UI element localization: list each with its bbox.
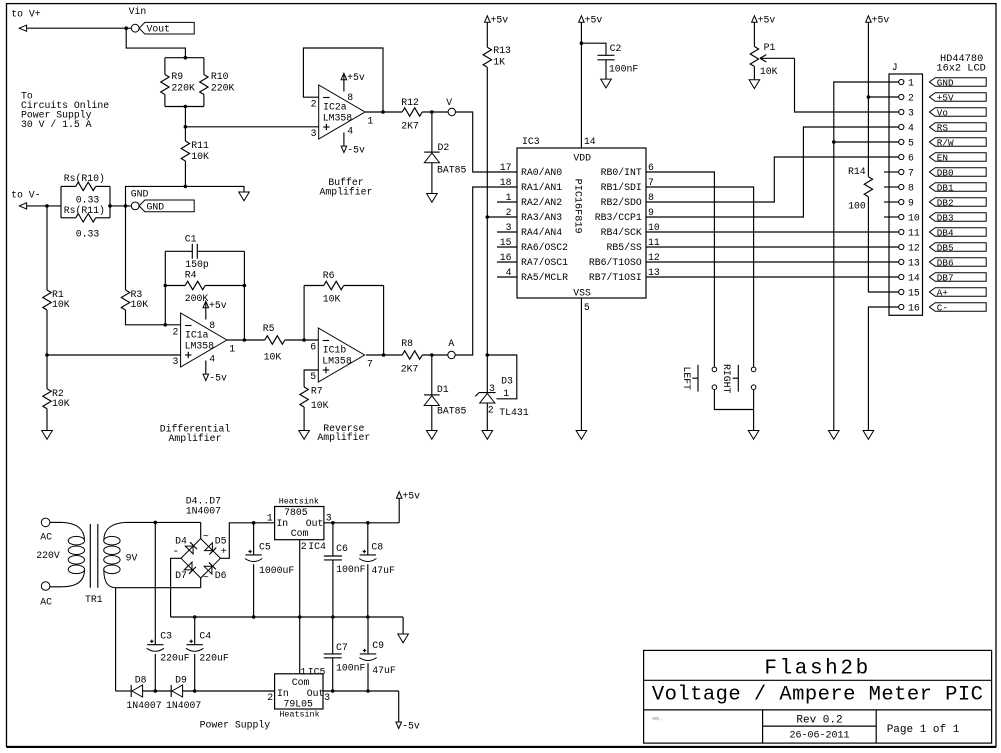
- svg-text:2: 2: [908, 92, 914, 103]
- svg-text:Rs(R11): Rs(R11): [64, 205, 105, 216]
- svg-text:5: 5: [908, 137, 914, 148]
- wire R6 left vertical: [303, 286, 305, 341]
- svg-text:100nF: 100nF: [609, 64, 639, 75]
- wire mid rail: [171, 615, 404, 619]
- wire 7805 out rail: [324, 521, 399, 525]
- wire D9 to 79L05: [183, 690, 275, 692]
- connector AC top: [40, 518, 52, 542]
- svg-text:15: 15: [908, 287, 920, 298]
- svg-text:Com: Com: [292, 677, 310, 688]
- ground below C- line: [863, 431, 874, 440]
- svg-text:~: ~: [203, 532, 209, 543]
- svg-text:Out: Out: [306, 518, 324, 529]
- svg-text:Amplifier: Amplifier: [169, 433, 222, 444]
- resistor R1: [43, 289, 70, 310]
- svg-text:R12: R12: [401, 97, 419, 108]
- connector V terminal: [446, 97, 455, 116]
- svg-text:3: 3: [326, 513, 332, 524]
- net tag Vout: [139, 22, 194, 34]
- svg-text:79L05: 79L05: [284, 698, 314, 709]
- svg-text:LEFT: LEFT: [681, 367, 692, 391]
- wire VSS to ground: [580, 298, 582, 431]
- resistor R11: [181, 140, 209, 162]
- connector J pin 9: [899, 197, 914, 208]
- wire IC2a feedback loop: [303, 48, 384, 114]
- wire DB2 stub: [884, 201, 899, 203]
- svg-text:10K: 10K: [191, 151, 209, 162]
- wire R8 to A node: [422, 353, 448, 357]
- svg-text:AC: AC: [40, 597, 52, 608]
- net tag GND: [139, 200, 194, 212]
- svg-text:1000uF: 1000uF: [259, 565, 294, 576]
- wire Rs box right: [108, 186, 131, 217]
- capacitor C9 47uF: [359, 617, 396, 691]
- connector J pin 10: [899, 212, 920, 223]
- wire RA2 stub: [497, 201, 517, 203]
- svg-text:100nF: 100nF: [336, 662, 366, 673]
- power +5v out: [396, 490, 420, 522]
- transformer TR1 primary: [50, 522, 85, 586]
- op-amp IC1a: [173, 300, 236, 384]
- svg-text:R4: R4: [185, 269, 197, 280]
- wire TL431 ref loop: [487, 355, 517, 399]
- svg-text:GND: GND: [147, 201, 165, 212]
- title block frame: [644, 650, 992, 743]
- wire P1 wiper to Vo: [795, 58, 899, 112]
- svg-text:200K: 200K: [185, 293, 209, 304]
- svg-text:Power Supply: Power Supply: [200, 720, 271, 731]
- svg-text:17: 17: [500, 162, 512, 173]
- svg-text:4: 4: [347, 125, 353, 136]
- svg-text:D1: D1: [437, 384, 449, 395]
- power +5v for LCD: [866, 14, 890, 25]
- connector A terminal: [448, 338, 455, 359]
- diode D3 TL431: [475, 355, 529, 418]
- wire secondary bottom: [116, 587, 201, 589]
- connector J pin 13: [899, 257, 920, 268]
- svg-text:D3: D3: [501, 375, 513, 386]
- diode D9 1N4007: [166, 674, 201, 711]
- node Vin junction: [124, 6, 146, 30]
- svg-text:+5v: +5v: [758, 14, 776, 25]
- net tag DB5: [929, 242, 986, 253]
- wire RB0 to LEFT button: [646, 172, 714, 367]
- svg-text:LM358: LM358: [322, 355, 352, 366]
- IC U1 PIC16F819: [500, 136, 660, 313]
- svg-text:TR1: TR1: [85, 594, 103, 605]
- svg-text:RA2/AN2: RA2/AN2: [521, 197, 562, 208]
- wire RB6 to DB6: [646, 261, 899, 263]
- svg-text:5: 5: [584, 302, 590, 313]
- wire R/W pin5 line: [834, 141, 899, 143]
- svg-text:IC3: IC3: [522, 136, 540, 147]
- svg-text:to V+: to V+: [11, 8, 41, 19]
- wire TL431 to ground: [486, 403, 488, 431]
- svg-text:1: 1: [300, 666, 306, 677]
- svg-text:D5: D5: [215, 535, 227, 546]
- wire GND pin1 line: [832, 82, 899, 431]
- resistor R12: [401, 97, 422, 132]
- svg-text:+5v: +5v: [209, 300, 227, 311]
- wire IC2a out to R12: [365, 111, 402, 113]
- svg-text:+: +: [221, 547, 227, 558]
- svg-text:V: V: [446, 97, 452, 108]
- svg-text:1: 1: [229, 344, 235, 355]
- net tag GND: [929, 77, 986, 88]
- svg-text:P1: P1: [764, 42, 776, 53]
- svg-text:C2: C2: [610, 43, 622, 54]
- wire 79L05 com: [299, 617, 301, 674]
- svg-text:+5v: +5v: [872, 14, 890, 25]
- svg-text:DB2: DB2: [937, 197, 954, 208]
- svg-text:7805: 7805: [284, 507, 308, 518]
- svg-text:-: -: [173, 546, 180, 558]
- svg-text:220uF: 220uF: [199, 652, 229, 663]
- connector J pin 7: [899, 167, 914, 178]
- wire C- pin16 to ground: [868, 307, 898, 431]
- svg-text:1: 1: [908, 77, 914, 88]
- svg-text:1N4007: 1N4007: [186, 506, 221, 517]
- svg-text:3: 3: [489, 383, 495, 394]
- wire RA5 stub: [497, 276, 517, 278]
- node to V+ label: [11, 8, 41, 19]
- svg-text:LM358: LM358: [185, 340, 215, 351]
- wire V- to R1: [46, 206, 48, 290]
- wire transformer drop: [115, 588, 117, 691]
- svg-text:J: J: [892, 62, 898, 73]
- svg-text:10K: 10K: [311, 400, 329, 411]
- svg-text:C-: C-: [937, 302, 948, 313]
- svg-text:+5v: +5v: [402, 490, 420, 501]
- net tag DB6: [929, 257, 986, 268]
- rectifier bridge D4..D7: [173, 496, 227, 585]
- wire D8 to C3 node: [143, 690, 172, 692]
- svg-text:VSS: VSS: [573, 288, 591, 299]
- wire DB3 stub: [884, 216, 899, 218]
- svg-text:2: 2: [267, 692, 273, 703]
- svg-text:3: 3: [173, 356, 179, 367]
- svg-text:R5: R5: [263, 323, 275, 334]
- svg-text:D8: D8: [135, 674, 147, 685]
- resistor Rs(R10): [61, 173, 110, 205]
- svg-text:7: 7: [908, 167, 914, 178]
- svg-text:4: 4: [908, 122, 914, 133]
- op-amp IC1b: [310, 328, 373, 382]
- text 220V: [36, 550, 60, 561]
- resistor R9: [161, 71, 195, 95]
- regulator IC5 79L05: [267, 666, 330, 719]
- svg-text:RS: RS: [937, 122, 949, 133]
- svg-text:C4: C4: [199, 631, 211, 642]
- connector J pin 16: [899, 302, 920, 313]
- resistor R2: [43, 355, 70, 409]
- svg-text:16x2 LCD: 16x2 LCD: [936, 63, 985, 75]
- svg-text:RA1/AN1: RA1/AN1: [521, 182, 562, 193]
- svg-text:R7: R7: [311, 386, 323, 397]
- wire mid rail to ground: [402, 617, 404, 634]
- wire RB1 to RIGHT button: [646, 187, 754, 367]
- svg-text:220uF: 220uF: [160, 652, 190, 663]
- wire C1/R4 left vertical: [164, 251, 166, 324]
- svg-text:30 V / 1.5 A: 30 V / 1.5 A: [21, 119, 92, 130]
- wire 79L05 out rail: [323, 689, 399, 693]
- connector J pin 4: [899, 122, 914, 133]
- resistor R5: [263, 323, 285, 363]
- svg-text:A+: A+: [937, 287, 949, 298]
- svg-text:R8: R8: [401, 338, 413, 349]
- text Power Supply: [200, 720, 271, 731]
- svg-text:8: 8: [209, 320, 215, 331]
- svg-text:12: 12: [908, 242, 920, 253]
- svg-text:GND: GND: [937, 77, 954, 88]
- node to V- label: [11, 190, 40, 201]
- wire +5v to pin2: [867, 22, 899, 99]
- svg-text:Com: Com: [291, 528, 309, 539]
- svg-text:220K: 220K: [211, 83, 235, 94]
- svg-text:10K: 10K: [323, 293, 341, 304]
- svg-text:RB4/SCK: RB4/SCK: [601, 227, 642, 238]
- svg-text:VDD: VDD: [573, 153, 591, 164]
- wire D1 to ground: [431, 406, 433, 431]
- ground below P1: [749, 80, 760, 89]
- svg-text:100: 100: [848, 200, 866, 211]
- svg-text:IC2a: IC2a: [323, 102, 347, 113]
- wire R11 bus to IC2a pin3: [185, 126, 318, 128]
- ground below buttons: [748, 431, 759, 440]
- wire RB5 to DB5: [646, 246, 899, 248]
- diode D8 1N4007: [116, 674, 162, 711]
- svg-text:IC1b: IC1b: [323, 345, 347, 356]
- power -5v out: [396, 691, 420, 732]
- net tag Vo: [929, 107, 986, 118]
- svg-text:1N4007: 1N4007: [166, 700, 201, 711]
- wire V to RA0: [456, 112, 518, 172]
- svg-text:Vout: Vout: [147, 24, 171, 35]
- svg-text:3: 3: [908, 107, 914, 118]
- wire top rail to C3: [154, 522, 156, 644]
- wire C1/R4 right vertical: [243, 251, 247, 342]
- svg-text:LM358: LM358: [323, 112, 353, 123]
- svg-text:Vin: Vin: [129, 6, 147, 17]
- wire GND to R3: [125, 206, 127, 290]
- op-amp IC2a: [311, 72, 374, 156]
- svg-text:18: 18: [500, 177, 512, 188]
- net tag DB4: [929, 227, 986, 238]
- svg-text:RB1/SDI: RB1/SDI: [601, 182, 642, 193]
- wire bridge AC top: [200, 522, 202, 538]
- svg-text:2: 2: [173, 327, 179, 338]
- connector J pin 15: [899, 287, 920, 298]
- ground at R11 bus: [239, 192, 250, 201]
- svg-text:C7: C7: [336, 642, 348, 653]
- svg-text:8: 8: [347, 92, 353, 103]
- svg-text:DB1: DB1: [937, 182, 954, 193]
- text Buffer Amplifier: [320, 177, 373, 197]
- svg-text:100nF: 100nF: [336, 564, 366, 575]
- svg-text:2: 2: [506, 207, 512, 218]
- svg-text:Page 1 of 1: Page 1 of 1: [887, 724, 960, 736]
- svg-text:+5v: +5v: [347, 72, 365, 83]
- svg-text:26-06-2011: 26-06-2011: [789, 730, 849, 741]
- resistor R4: [164, 269, 247, 304]
- connector AC bottom: [40, 582, 52, 608]
- svg-text:R/W: R/W: [937, 137, 954, 148]
- wire R14 to A+ pin15: [868, 197, 898, 292]
- svg-text:47uF: 47uF: [372, 665, 396, 676]
- svg-text:Voltage / Ampere Meter PIC: Voltage / Ampere Meter PIC: [652, 684, 984, 707]
- wire DB0 stub: [884, 171, 899, 173]
- connector J pin 6: [899, 152, 914, 163]
- connector J pin 5: [899, 137, 914, 148]
- svg-text:D9: D9: [175, 674, 187, 685]
- svg-text:IC5: IC5: [308, 666, 326, 677]
- svg-text:DB5: DB5: [937, 242, 954, 253]
- svg-text:C9: C9: [372, 640, 384, 651]
- wire C4 to D9 node: [193, 654, 197, 693]
- svg-text:RB2/SDO: RB2/SDO: [601, 197, 642, 208]
- wire 7805 com: [299, 540, 301, 617]
- wire to V- arrow: [19, 203, 61, 209]
- svg-text:R6: R6: [323, 270, 335, 281]
- svg-text:C1: C1: [185, 234, 197, 245]
- connector J pin 11: [899, 227, 920, 238]
- wire to V+ arrow: [19, 25, 126, 31]
- svg-text:RB0/INT: RB0/INT: [601, 167, 642, 178]
- svg-text:2: 2: [488, 405, 494, 416]
- svg-text:1N4007: 1N4007: [126, 700, 161, 711]
- connector J pin 2: [899, 92, 914, 103]
- svg-text:IC4: IC4: [308, 541, 326, 552]
- connector J pin 8: [899, 182, 914, 193]
- svg-text:+5V: +5V: [937, 92, 954, 103]
- svg-text:RIGHT: RIGHT: [721, 364, 732, 394]
- power +5v for VDD: [579, 14, 603, 25]
- wire R2 to ground: [46, 409, 48, 431]
- text Differential Amplifier: [160, 424, 231, 445]
- wire mid rail to C4: [194, 617, 196, 645]
- node GND label: [131, 189, 149, 200]
- net tag A+: [929, 287, 986, 298]
- wire RB7 to DB7: [646, 276, 899, 278]
- svg-text:+5v: +5v: [585, 14, 603, 25]
- svg-text:RA6/OSC2: RA6/OSC2: [521, 242, 568, 253]
- svg-text:RA0/AN0: RA0/AN0: [521, 167, 562, 178]
- wire R9/R10 to R11: [184, 107, 188, 142]
- svg-text:RA4/AN4: RA4/AN4: [521, 227, 562, 238]
- svg-text:3: 3: [311, 128, 317, 139]
- svg-text:Flash2b: Flash2b: [764, 658, 870, 681]
- net tag C-: [929, 302, 986, 313]
- capacitor C6 100nF: [324, 523, 366, 617]
- wire RA3 branch: [487, 216, 517, 218]
- svg-text:A: A: [448, 338, 454, 349]
- ground below R7: [299, 431, 310, 440]
- net tag DB0: [929, 167, 986, 178]
- svg-text:6: 6: [310, 342, 316, 353]
- wire node to IC1a pin3: [47, 354, 181, 356]
- connector J pin 1: [899, 77, 914, 88]
- wire secondary top rail: [126, 521, 201, 525]
- svg-text:Rs(R10): Rs(R10): [64, 173, 105, 184]
- wire RB2 to EN: [646, 157, 899, 202]
- text Voltage / Ampere Meter PIC: [652, 684, 984, 707]
- svg-text:Amplifier: Amplifier: [320, 186, 373, 197]
- wire bridge minus to mid rail: [171, 558, 181, 617]
- svg-text:9: 9: [908, 197, 914, 208]
- diode D1 BAT85: [424, 355, 467, 416]
- svg-text:8: 8: [908, 182, 914, 193]
- svg-text:RA5/MCLR: RA5/MCLR: [521, 272, 568, 283]
- svg-text:Amplifier: Amplifier: [317, 432, 370, 443]
- svg-text:2: 2: [311, 99, 317, 110]
- regulator IC4 7805: [267, 496, 332, 552]
- wire buttons to ground: [714, 390, 753, 431]
- capacitor C3 220uF: [147, 631, 190, 664]
- svg-text:RB3/CCP1: RB3/CCP1: [595, 212, 642, 223]
- svg-text:RA7/OSC1: RA7/OSC1: [521, 257, 568, 268]
- wire RB4 to DB4: [646, 231, 899, 233]
- svg-text:to V-: to V-: [11, 190, 40, 201]
- svg-text:10K: 10K: [52, 299, 70, 310]
- net tag DB2: [929, 197, 986, 208]
- wire R3 to IC1a pin2: [126, 310, 181, 327]
- wire D2 to ground: [431, 163, 433, 194]
- svg-text:-5v: -5v: [347, 145, 365, 156]
- capacitor C7 100nF: [324, 617, 366, 691]
- svg-text:1: 1: [503, 388, 509, 399]
- wire C2 to ground: [605, 60, 607, 79]
- svg-text:R9: R9: [171, 71, 183, 82]
- wire RA7 stub: [497, 261, 517, 263]
- svg-text:D2: D2: [438, 142, 450, 153]
- svg-text:14: 14: [908, 272, 920, 283]
- svg-text:4: 4: [209, 353, 215, 364]
- svg-text:DB4: DB4: [937, 227, 954, 238]
- svg-text:Heatsink: Heatsink: [279, 710, 319, 720]
- wire IC1b out to R8: [366, 354, 402, 356]
- resistor R8: [401, 338, 422, 375]
- wire IC1b pin5 to R7: [304, 370, 318, 387]
- svg-text:16: 16: [908, 302, 920, 313]
- switch RIGHT: [721, 364, 756, 394]
- svg-text:BAT85: BAT85: [437, 165, 467, 176]
- ground below R2: [42, 431, 53, 440]
- svg-text:AC: AC: [40, 531, 52, 542]
- svg-text:Heatsink: Heatsink: [279, 496, 319, 506]
- capacitor C1: [165, 234, 244, 271]
- wire IC1a out to R5: [227, 339, 265, 341]
- connector Vout terminal: [126, 24, 139, 32]
- ground below VSS: [576, 431, 587, 440]
- svg-text:In: In: [277, 688, 289, 699]
- svg-text:0.33: 0.33: [76, 195, 100, 206]
- svg-text:D4: D4: [175, 535, 187, 546]
- diode D2 BAT85: [424, 112, 466, 176]
- svg-text:GND: GND: [131, 189, 149, 200]
- svg-text:Out: Out: [307, 688, 325, 699]
- wire R5 to IC1b pin6: [285, 338, 319, 342]
- svg-text:RB6/T1OSO: RB6/T1OSO: [589, 257, 642, 268]
- resistor R10: [200, 71, 235, 95]
- net tag DB1: [929, 182, 986, 193]
- resistor R6: [304, 270, 384, 304]
- svg-text:10K: 10K: [131, 299, 149, 310]
- wire R9/R10 bottom bus: [165, 95, 204, 109]
- svg-text:PIC16F819: PIC16F819: [572, 179, 583, 234]
- svg-text:10: 10: [908, 212, 920, 223]
- ground below D1: [427, 431, 438, 440]
- wire R9/R10 top bus: [165, 58, 204, 75]
